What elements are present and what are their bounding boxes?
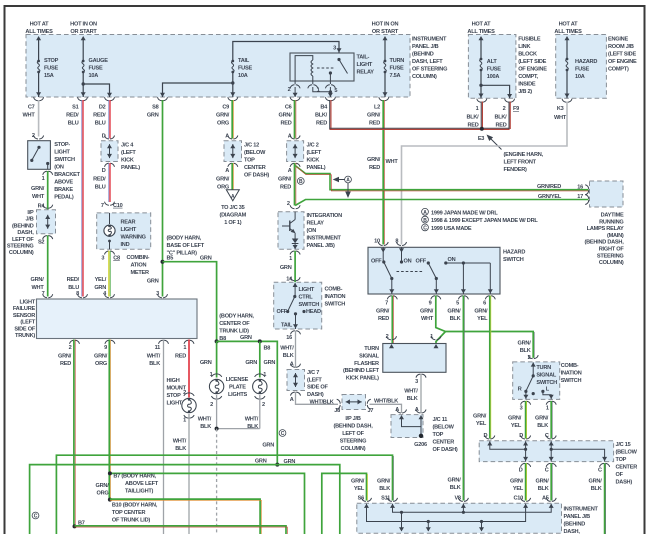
label WHT/BLK (flasher 3) [404, 389, 418, 403]
wire gauge fuse feed [81, 36, 86, 97]
svg-text:J/C 12: J/C 12 [244, 143, 259, 149]
svg-text:YEL: YEL [354, 486, 365, 492]
label GRN/BLK (turn signal switch feed) [518, 341, 532, 355]
svg-text:10A: 10A [238, 73, 248, 79]
svg-text:(LEFT SIDE: (LEFT SIDE [518, 59, 546, 65]
svg-text:HAZARD: HAZARD [575, 59, 597, 65]
hazard switch contact set 1 [382, 260, 394, 294]
ALT fuse [480, 58, 483, 72]
svg-text:(LEFT: (LEFT [307, 150, 322, 156]
label RED/BLU (below J/C4) [93, 177, 106, 191]
label J/C 7 [307, 370, 328, 398]
svg-text:A: A [225, 134, 229, 140]
label INSTRUMENT PANEL J/B (bottom) [564, 507, 599, 534]
wire WHT/BLK dashed down [216, 429, 218, 534]
connector 3 C8 [101, 251, 120, 261]
svg-text:PANEL J/B: PANEL J/B [564, 514, 591, 520]
svg-text:1999 USA MADE: 1999 USA MADE [431, 226, 472, 232]
label HOT IN ON OR START (turn) [372, 22, 399, 36]
svg-text:J/B: J/B [26, 217, 34, 223]
I/P J/B (J8-J7) [334, 395, 373, 415]
label HOT AT ALL TIMES (stop) [25, 22, 53, 36]
svg-text:(DIAGRAM: (DIAGRAM [220, 213, 247, 219]
svg-text:J8: J8 [334, 408, 340, 414]
connector integration relay pin 1 [289, 251, 300, 262]
node B7 junction [108, 471, 112, 475]
svg-text:3: 3 [333, 46, 336, 52]
svg-text:(BEHIND DASH,: (BEHIND DASH, [333, 424, 373, 430]
J/C 15 internal wires [490, 441, 607, 461]
svg-text:GRN: GRN [280, 265, 292, 271]
svg-text:CENTER: CENTER [433, 440, 455, 446]
license plate light bulb 1 [209, 374, 223, 399]
svg-text:J7: J7 [368, 408, 374, 414]
svg-text:INSTRUMENT: INSTRUMENT [412, 37, 447, 43]
wire WHT/BLK flasher 3 to J/C11 [420, 374, 422, 413]
wire GRN rail B7 left [110, 473, 305, 534]
connector C9 [216, 97, 238, 126]
wire GRN/WHT S2 to light failure sensor pin 7 [47, 235, 49, 296]
svg-text:WHT/: WHT/ [147, 354, 161, 360]
svg-text:COMB-: COMB- [561, 363, 579, 369]
wire GRN/BLK TS pin 1 to J/C15 [551, 401, 552, 439]
svg-text:2: 2 [287, 201, 290, 207]
wire LFS pin 1 RED to high mount stop light [188, 340, 190, 398]
connector B4 [315, 97, 335, 126]
svg-text:BLU: BLU [68, 121, 79, 127]
svg-text:CTRL: CTRL [299, 295, 314, 301]
labels hazard switch positions [371, 257, 456, 265]
svg-text:16: 16 [286, 335, 292, 341]
svg-text:LIGHT: LIGHT [19, 300, 35, 306]
svg-text:GAUGE: GAUGE [89, 58, 109, 64]
svg-text:OFF: OFF [416, 259, 427, 265]
svg-text:GRN: GRN [255, 459, 267, 465]
svg-text:7: 7 [101, 203, 104, 209]
svg-text:1: 1 [42, 176, 45, 182]
svg-text:COLUMN): COLUMN) [599, 260, 624, 266]
svg-text:D: D [102, 134, 106, 140]
svg-text:GRN: GRN [240, 335, 252, 341]
wire GRN/BLK hazard 5 to V8 [463, 296, 464, 501]
svg-text:DASH,: DASH, [17, 230, 34, 236]
label GRN/RED (L2 lower) [367, 157, 381, 171]
svg-text:BLK: BLK [520, 348, 531, 354]
svg-text:C6: C6 [285, 105, 292, 111]
svg-text:YEL/: YEL/ [95, 277, 107, 283]
svg-text:(ON: (ON [54, 165, 64, 171]
wire YEL/GRN meter to LFS pin 4 [109, 251, 110, 297]
wire WHT/BLK high mount ground [188, 414, 190, 534]
svg-text:K3: K3 [557, 106, 564, 112]
svg-text:RELAY: RELAY [307, 221, 325, 227]
svg-text:GRN: GRN [200, 360, 212, 366]
wire GRN rail R2 [30, 465, 340, 534]
svg-text:A: A [395, 407, 399, 413]
wire WHT/BLK J7 to J/C11 [370, 404, 402, 413]
svg-text:HOT IN ON: HOT IN ON [70, 22, 97, 28]
svg-text:RED: RED [369, 165, 380, 171]
wire GRN/YEL 17 to DRL relay [295, 200, 588, 206]
wire tail fuse to relay pin 3 [233, 42, 342, 62]
svg-text:C: C [281, 431, 285, 437]
svg-text:GRN/: GRN/ [473, 414, 487, 420]
svg-text:A: A [231, 194, 235, 200]
turn signal switch SW4 [513, 355, 560, 399]
label turn fuse [390, 58, 405, 79]
svg-text:GRN/: GRN/ [536, 479, 550, 485]
svg-text:OF DASH): OF DASH) [433, 447, 458, 453]
svg-text:SIGNAL: SIGNAL [536, 373, 556, 379]
J/C 12 [224, 134, 242, 175]
svg-text:FENDER): FENDER) [504, 167, 527, 173]
svg-text:C: C [545, 468, 549, 474]
label GRN (below B5) [147, 279, 159, 285]
label stop fuse [44, 58, 59, 79]
svg-text:J/C 7: J/C 7 [307, 370, 319, 376]
svg-text:WHT/: WHT/ [173, 439, 187, 445]
wire ALT fuse feed [479, 36, 484, 98]
svg-text:C10: C10 [513, 496, 523, 502]
svg-text:(BODY HARN,: (BODY HARN, [167, 236, 202, 242]
svg-text:GRN/: GRN/ [31, 277, 45, 283]
svg-text:RED/: RED/ [66, 113, 79, 119]
svg-text:GRN/: GRN/ [447, 309, 461, 315]
svg-text:INSTRUMENT: INSTRUMENT [307, 236, 342, 242]
wire B5 branch to license lights rail [163, 262, 217, 342]
wire ALT branch to pin 2 [479, 84, 512, 99]
svg-text:GRN/: GRN/ [508, 416, 522, 422]
svg-text:D: D [519, 468, 523, 474]
svg-text:ROOM J/B: ROOM J/B [608, 44, 634, 50]
label GRN (B8 vertical) [264, 360, 276, 366]
label TO J/C 35 [220, 205, 247, 226]
node B8 junction 1 [215, 339, 219, 343]
label FUSIBLE LINK BLOCK [518, 37, 547, 96]
svg-text:2: 2 [503, 106, 506, 112]
svg-text:REAR: REAR [121, 220, 136, 226]
connector S1 [66, 97, 87, 126]
svg-text:SWITCH: SWITCH [299, 302, 320, 308]
labels above I/P J/B bottom [351, 478, 602, 493]
wire GRN/ORG J/C12 to triangle [232, 163, 233, 190]
wire stop fuse feed [36, 36, 41, 97]
svg-text:BLK: BLK [379, 486, 390, 492]
label J/C 2 [307, 143, 326, 172]
svg-text:L2: L2 [374, 105, 380, 111]
svg-text:TOP CENTER: TOP CENTER [112, 510, 146, 516]
connector stop-light switch pin 1 [42, 171, 53, 182]
svg-text:SIDE OF: SIDE OF [14, 326, 35, 332]
svg-text:COMPT): COMPT) [608, 67, 629, 73]
svg-text:WHT/: WHT/ [245, 417, 259, 423]
wire GRN license rail B8 [217, 341, 278, 464]
svg-text:KICK PANEL): KICK PANEL) [346, 376, 379, 382]
svg-text:A: A [288, 134, 292, 140]
svg-text:B4: B4 [320, 105, 328, 111]
svg-text:KICK: KICK [307, 158, 320, 164]
svg-text:(LEFT SIDE: (LEFT SIDE [608, 52, 636, 58]
label HOT IN ON OR START (gauge) [70, 22, 97, 36]
J/C 15 bottom connectors [519, 463, 610, 473]
label J/C 11 [433, 417, 458, 453]
svg-text:SWITCH: SWITCH [536, 380, 557, 386]
svg-text:8: 8 [395, 239, 398, 245]
wire GRN/RED J/C2 to integration relay pin 2 [295, 163, 296, 206]
svg-text:ALL TIMES: ALL TIMES [25, 29, 53, 35]
svg-text:RED: RED [467, 123, 478, 129]
integration relay transistor Q1 and diode [282, 212, 298, 250]
svg-text:RED/: RED/ [67, 277, 80, 283]
svg-text:STEERING: STEERING [340, 439, 367, 445]
svg-text:B10 (BODY HARN,: B10 (BODY HARN, [112, 503, 158, 509]
svg-text:S1: S1 [72, 105, 78, 111]
wire GRN integration relay to light ctrl switch [294, 251, 296, 283]
labels light ctrl switch [277, 287, 322, 329]
svg-text:WHT/BLK: WHT/BLK [310, 399, 334, 405]
wire S8 GRN [162, 100, 164, 297]
light ctrl switch contacts [286, 283, 306, 329]
svg-text:J/C 11: J/C 11 [433, 417, 448, 423]
svg-text:5: 5 [456, 301, 459, 307]
label J/C 15 [616, 442, 638, 486]
label WHT/BLK [280, 346, 294, 360]
label J/C 12 [244, 143, 269, 179]
svg-text:BLK: BLK [407, 396, 418, 402]
wire L2 GRN/RED to hazard switch pin 10 [383, 100, 384, 245]
label GRN (B8 lower) [262, 443, 274, 449]
connector S8 [147, 97, 168, 118]
node B8 rail to GRN rail R2 [275, 463, 279, 467]
svg-text:A5: A5 [542, 496, 549, 502]
wire WHT/BLK license ground link [215, 427, 260, 431]
svg-text:ATION: ATION [131, 263, 147, 269]
svg-text:1998 & 1999 EXCEPT JAPAN MADE: 1998 & 1999 EXCEPT JAPAN MADE W/ DRL [431, 218, 538, 224]
svg-text:PEDAL): PEDAL) [54, 195, 74, 201]
svg-text:COLUMN): COLUMN) [412, 74, 437, 80]
svg-text:2: 2 [69, 345, 72, 351]
wire LFS pin 9 GRN/ORG down to B10 [109, 340, 110, 500]
svg-text:INATION: INATION [561, 371, 582, 377]
hazard fuse [566, 58, 569, 72]
svg-text:STEERING: STEERING [597, 253, 624, 259]
svg-text:(LEFT: (LEFT [121, 150, 136, 156]
gauge fuse [82, 60, 85, 74]
triangle to J/C 35 [226, 190, 239, 201]
svg-text:B5: B5 [167, 256, 174, 262]
label HAZARD SWITCH [503, 250, 525, 264]
svg-text:D2: D2 [99, 105, 106, 111]
wire license bulb 2 ground [260, 395, 265, 429]
E3 callout arrow [487, 135, 502, 150]
svg-text:15A: 15A [44, 73, 54, 79]
wire E3 BLK/RED horizontal [330, 128, 510, 129]
svg-text:DASH): DASH) [307, 392, 324, 398]
svg-text:ABOVE LEFT: ABOVE LEFT [125, 481, 159, 487]
svg-text:OR START: OR START [372, 29, 399, 35]
svg-text:RED/: RED/ [93, 113, 106, 119]
svg-text:GRN/: GRN/ [58, 354, 72, 360]
label WHT (hazard 8 wire) [386, 159, 399, 165]
hazard switch pin 10 wire inside [382, 247, 384, 261]
svg-text:RED: RED [495, 123, 506, 129]
svg-text:(MAIN): (MAIN) [607, 233, 624, 239]
svg-text:COMBIN-: COMBIN- [127, 255, 150, 261]
relay pin 1 connector [308, 85, 331, 94]
svg-text:S11: S11 [381, 496, 390, 502]
svg-text:GRN/: GRN/ [216, 177, 230, 183]
wire hazard fuse feed [565, 36, 570, 98]
J/C 11 [391, 407, 426, 438]
svg-text:C: C [423, 226, 427, 232]
svg-text:STOP: STOP [44, 58, 59, 64]
label B10 BODY HARN TOP CENTER OF TRUNK LID [112, 503, 158, 524]
svg-text:OF ENGINE: OF ENGINE [518, 67, 547, 73]
svg-text:WHT: WHT [32, 194, 45, 200]
svg-text:RUNNING: RUNNING [599, 219, 623, 225]
connector D2 [93, 97, 114, 126]
connector ALT pin 2 / F9 [494, 99, 519, 129]
svg-text:TAIL: TAIL [238, 58, 250, 64]
svg-text:TAILLIGHT): TAILLIGHT) [125, 489, 154, 495]
svg-text:YEL: YEL [477, 316, 488, 322]
svg-text:2: 2 [262, 402, 265, 408]
svg-text:1999 JAPAN MADE W/ DRL: 1999 JAPAN MADE W/ DRL [431, 210, 498, 216]
svg-text:TOP: TOP [433, 432, 444, 438]
label B7 BODY HARN ABOVE LEFT TAILLIGHT [113, 474, 158, 495]
svg-text:SWITCH: SWITCH [325, 302, 346, 308]
label ENGINE ROOM J/B [608, 37, 637, 73]
wire GRN/WHT hazard 9 to turn signal switch [436, 296, 535, 358]
svg-text:1: 1 [317, 88, 320, 94]
svg-text:OR START: OR START [70, 29, 97, 35]
svg-text:G206: G206 [414, 442, 427, 448]
svg-text:A: A [225, 168, 229, 174]
svg-text:RED: RED [280, 121, 291, 127]
svg-text:C: C [34, 514, 38, 520]
svg-text:LINK: LINK [518, 44, 530, 50]
relay coil bottom wire to pin 1 [312, 76, 314, 84]
svg-text:BLK: BLK [450, 485, 461, 491]
svg-text:BLK/: BLK/ [315, 113, 328, 119]
wire tail fuse branch to S8 [160, 81, 235, 97]
svg-text:RED/: RED/ [93, 177, 106, 183]
svg-text:R: R [518, 387, 522, 393]
svg-text:TOP: TOP [244, 158, 255, 164]
svg-text:PANEL J/B: PANEL J/B [412, 44, 439, 50]
label WHT/BLK (high mount) [173, 439, 187, 453]
stop fuse [37, 60, 40, 74]
note C circled (bottom left) [32, 512, 39, 520]
svg-text:8: 8 [76, 291, 79, 297]
light control switch SW2 [274, 282, 322, 329]
relay coil [311, 60, 313, 76]
svg-text:FUSE: FUSE [238, 66, 252, 72]
svg-text:HOT AT: HOT AT [472, 22, 492, 28]
svg-text:TURN: TURN [390, 58, 405, 64]
hazard switch link dashed [397, 271, 425, 273]
wire S1 RED/BLU [82, 100, 83, 297]
svg-text:GRN: GRN [245, 360, 257, 366]
svg-text:OF DASH): OF DASH) [244, 173, 269, 179]
svg-text:A: A [290, 397, 294, 403]
label WHT/BLK (J8 wire) [310, 399, 334, 405]
wire flasher pin 1 diagonal [436, 332, 446, 344]
relay coil top wire to pin 2 [295, 56, 313, 84]
svg-text:GRN: GRN [147, 113, 159, 119]
svg-text:RED: RED [369, 121, 380, 127]
svg-text:B: B [423, 218, 427, 224]
svg-text:(BELOW: (BELOW [616, 450, 638, 456]
label INSTRUMENT PANEL J/B [412, 37, 447, 81]
svg-text:(BELOW: (BELOW [244, 150, 266, 156]
svg-text:LIGHT: LIGHT [357, 62, 373, 68]
I/P J/B (R4-S2) [37, 210, 56, 234]
svg-text:WHT/: WHT/ [198, 417, 212, 423]
svg-text:LIGHT: LIGHT [121, 227, 137, 233]
svg-text:WARNING: WARNING [121, 235, 146, 241]
wire GRN/YEL J/C15 to C10 [526, 463, 527, 500]
svg-text:WHT/BLK: WHT/BLK [374, 398, 398, 404]
node B5 junction [161, 260, 165, 264]
svg-text:GRN/: GRN/ [216, 113, 230, 119]
svg-text:(BELOW: (BELOW [433, 425, 455, 431]
integration relay U2 [278, 201, 304, 249]
svg-text:9: 9 [104, 345, 107, 351]
svg-text:TURN: TURN [536, 365, 551, 371]
svg-text:BLK: BLK [450, 316, 461, 322]
svg-text:GRN/: GRN/ [420, 309, 434, 315]
svg-text:1: 1 [183, 418, 186, 424]
turn signal switch bottom connectors [520, 401, 557, 411]
svg-text:TURN: TURN [364, 346, 379, 352]
svg-text:RIGHT OF: RIGHT OF [599, 247, 625, 253]
wire C6 GRN/RED to J/C2 [295, 100, 296, 139]
label ALT fuse [487, 59, 501, 80]
svg-text:E3: E3 [478, 136, 484, 142]
tail-light relay U1 [290, 53, 354, 81]
svg-text:BLK: BLK [591, 486, 602, 492]
svg-text:6: 6 [483, 301, 486, 307]
svg-text:WHT: WHT [32, 285, 45, 291]
wire RED/BLU J/C4 to C10 [109, 163, 110, 202]
svg-text:SENSOR: SENSOR [13, 313, 35, 319]
J/C 15 [479, 433, 613, 462]
svg-text:LIGHT: LIGHT [299, 287, 315, 293]
svg-text:D: D [484, 433, 488, 439]
wire GRN to license bulb 1 [200, 341, 217, 377]
svg-text:WHT: WHT [554, 115, 567, 121]
svg-text:BLK/: BLK/ [466, 115, 479, 121]
svg-text:10A: 10A [89, 73, 99, 79]
svg-text:SWITCH: SWITCH [503, 257, 524, 263]
svg-text:ALT: ALT [487, 59, 498, 65]
turn signal switch contacts [523, 362, 553, 399]
label GRN [280, 265, 292, 271]
label GRN/WHT [31, 186, 45, 200]
svg-text:GRN/: GRN/ [474, 309, 488, 315]
svg-text:RED: RED [280, 185, 291, 191]
svg-text:WHT/: WHT/ [404, 389, 418, 395]
svg-text:GRN/: GRN/ [535, 416, 549, 422]
svg-text:17: 17 [577, 194, 583, 200]
label ENGINE HARN LEFT FRONT FENDER [504, 152, 544, 173]
label GRN/ORG (B10 wire) [96, 483, 110, 497]
svg-text:COLUMN): COLUMN) [9, 250, 34, 256]
label REAR LIGHT WARNING IND [121, 220, 146, 249]
svg-text:I/P J/B: I/P J/B [345, 416, 360, 422]
svg-text:RED: RED [60, 361, 71, 367]
